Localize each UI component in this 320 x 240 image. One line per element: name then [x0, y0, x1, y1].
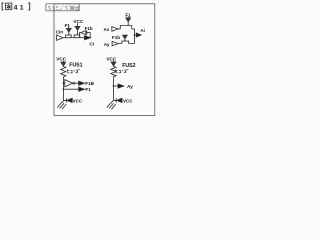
svg-text:Ai: Ai	[141, 28, 145, 33]
VCC supply arrow	[111, 61, 116, 66]
lower bump	[122, 41, 129, 43]
diode to F1b (left pointing, cathode bar right)	[80, 31, 91, 38]
wire rail	[63, 37, 85, 39]
arrow Ay	[118, 84, 124, 88]
svg-text:VCC: VCC	[123, 98, 133, 103]
node	[134, 34, 136, 36]
svg-text:Cin: Cin	[56, 29, 64, 34]
Cin buffer	[57, 35, 63, 40]
clamp diode to VCC	[66, 98, 72, 102]
svg-text:F1B: F1B	[85, 81, 94, 86]
transistor bump1	[66, 35, 72, 38]
F1 gate arrow	[126, 16, 131, 25]
svg-text:41: 41	[14, 4, 26, 11]
Ay buffer	[112, 41, 118, 46]
figure caption 図41	[2, 3, 30, 11]
output arrow to Ci	[85, 36, 91, 40]
label box	[46, 4, 79, 11]
svg-text:VCC: VCC	[106, 56, 117, 61]
node1	[63, 82, 65, 84]
resistor FUS1	[61, 66, 66, 83]
fuse note ヒューズ	[67, 69, 80, 73]
svg-text:VCC: VCC	[56, 56, 67, 61]
svg-text:VCC: VCC	[73, 98, 83, 103]
VCC gate stem	[77, 30, 79, 35]
wire down	[114, 86, 117, 100]
svg-text:F1: F1	[85, 87, 91, 92]
wire node1-node2	[63, 83, 65, 89]
clamp diode to VCC	[116, 98, 122, 102]
ground	[107, 100, 116, 109]
inverter to F1B	[64, 80, 79, 87]
upper rail	[118, 28, 135, 30]
Ax buffer	[112, 27, 118, 32]
lower rail	[118, 43, 134, 45]
svg-text:Ci: Ci	[89, 42, 94, 48]
wire down	[64, 89, 67, 100]
ground	[57, 100, 66, 109]
VCC supply arrow	[75, 23, 80, 30]
svg-text:FUS1: FUS1	[69, 62, 82, 68]
wire to F1 arrow	[64, 88, 79, 90]
VCC supply arrow	[61, 61, 66, 66]
output arrow Ai	[135, 33, 142, 37]
main box	[54, 4, 155, 116]
resistor FUS2	[111, 66, 116, 86]
svg-text:VCC: VCC	[73, 19, 84, 25]
arrow F1B	[79, 81, 85, 85]
fuse note ヒューズ	[116, 69, 129, 73]
vertical joining wire	[134, 29, 136, 44]
transistor bump2	[74, 35, 80, 38]
label text タイミング回路	[48, 5, 79, 10]
svg-text:Ay: Ay	[127, 84, 133, 90]
F1 gate arrow	[66, 27, 71, 35]
F1b gate arrow	[123, 35, 128, 41]
svg-text:FUS2: FUS2	[122, 63, 135, 69]
svg-text:F1b: F1b	[112, 35, 120, 40]
svg-text:Ay: Ay	[104, 42, 110, 47]
upper bump	[120, 26, 131, 29]
svg-text:Ax: Ax	[104, 27, 110, 32]
node2	[63, 88, 65, 90]
wire to Ay arrow	[114, 85, 119, 87]
arrow F1	[79, 87, 85, 91]
svg-text:F1: F1	[65, 23, 71, 28]
node	[113, 85, 115, 87]
